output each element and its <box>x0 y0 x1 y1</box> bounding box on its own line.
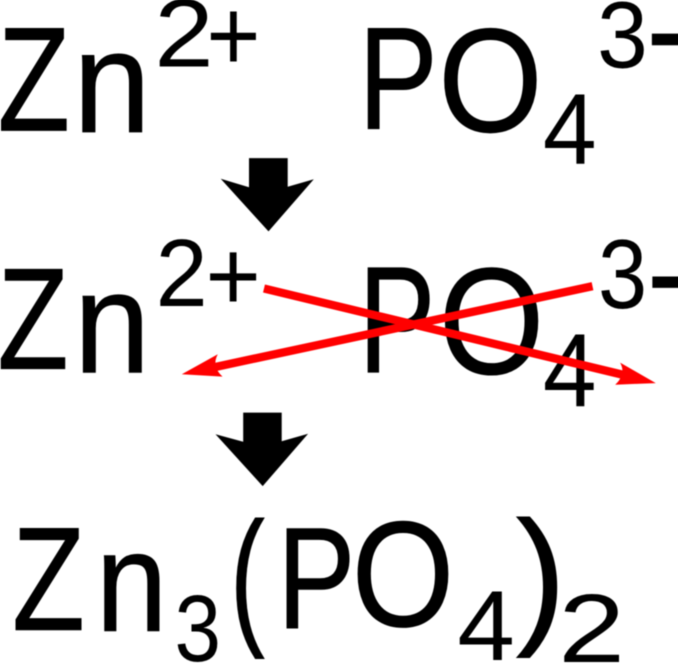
row3 product - letter n <box>96 581 168 583</box>
row2 charge superscript plus <box>205 275 260 277</box>
row3 subscript 2 <box>558 628 625 630</box>
row3 product - letter P <box>277 578 355 580</box>
row1 Zn cation - letter n <box>73 81 151 83</box>
row2 Zn cation - letter Z <box>0 318 69 320</box>
row1 charge superscript 3 <box>597 34 648 36</box>
row1 phosphate - letter O <box>438 80 542 82</box>
row1 charge superscript minus <box>647 27 678 29</box>
row1 Zn cation - letter Z <box>0 79 70 81</box>
red criss-cross arrow A: from Zn charge 2+ down-right toward PO4 (arrowhead at right) <box>264 289 656 385</box>
row3 opening parenthesis <box>230 575 265 577</box>
row2 phosphate - letter O <box>439 321 544 323</box>
row3 subscript 3 <box>175 627 221 629</box>
row2 charge superscript 2 <box>156 272 208 274</box>
row2 Zn cation - letter n <box>74 322 151 324</box>
row3 product - letter O <box>352 574 455 576</box>
row2 phosphate - letter P <box>359 319 436 321</box>
row1 charge superscript 2 <box>154 32 213 34</box>
row3 subscript 4 <box>457 625 514 627</box>
row3 closing parenthesis <box>516 574 566 576</box>
red criss-cross arrow B: from PO4 charge 3- down-left toward Zn (arrowhead at left) <box>182 286 593 376</box>
row2 charge superscript minus <box>647 270 678 272</box>
row2 charge superscript 3 <box>598 274 647 276</box>
row2 phosphate subscript 4 <box>543 369 597 371</box>
row1 phosphate subscript 4 <box>543 128 597 130</box>
row1 phosphate - letter P <box>358 78 437 80</box>
row1 charge superscript plus <box>206 35 260 37</box>
row3 product - letter Z <box>12 578 85 580</box>
black down arrow 2 (between row2 and row3) <box>216 413 309 487</box>
